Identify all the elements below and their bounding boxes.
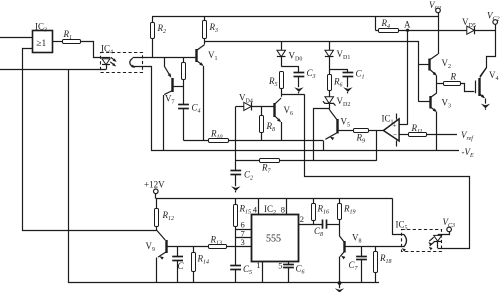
wire 555 pin ladder [236, 220, 252, 266]
resistor R16 [312, 199, 330, 225]
wire IC1 plus input [399, 124, 408, 126]
svg-text:+12V: +12V [144, 180, 165, 190]
IGBT V4 [476, 68, 499, 104]
phototransistor IC4 [130, 58, 135, 68]
transistor V3 [430, 93, 451, 112]
wire R1 to IC4 LED [80, 42, 102, 58]
resistor Rx [182, 58, 186, 105]
transistor V5 [325, 109, 350, 140]
wire IC4 emitter down [133, 67, 152, 152]
label Vref [461, 130, 474, 142]
transistor V9 [146, 230, 167, 260]
wire input 1 to IC3 [0, 37, 32, 39]
transistor V1 [197, 45, 218, 67]
wire IC5 LED cathode [438, 248, 442, 250]
wire R4 to VC2 [399, 30, 495, 32]
svg-text:5: 5 [278, 260, 282, 270]
wire VD4 node down [235, 106, 237, 170]
wire base rail V2 V3 [205, 42, 419, 102]
diode VD0 [277, 42, 302, 67]
capacitor C5 [230, 264, 252, 283]
wire V8 base rail [345, 246, 404, 248]
label -VE [462, 147, 475, 159]
wire V1 emitter down [203, 66, 205, 141]
resistor R4 [375, 18, 398, 33]
optocoupler IC5 box [402, 230, 442, 252]
wire V6 emitter down [281, 122, 283, 141]
node A [404, 20, 411, 32]
ground C1 [343, 87, 352, 93]
zener VD2 [323, 91, 350, 109]
wire +12V rail [156, 198, 393, 200]
capacitor C [172, 246, 184, 282]
terminal +12V [144, 180, 165, 199]
wire IC4 collector out [133, 57, 197, 59]
light arrows IC4 [110, 57, 116, 66]
diode VD4 [236, 93, 274, 111]
resistor R15 [234, 199, 252, 227]
wire R7 rail [236, 160, 376, 162]
svg-text:≥1: ≥1 [36, 39, 46, 49]
resistor R9 [354, 129, 384, 145]
wire input 2 of IC3 feedback [23, 49, 157, 231]
wire node A column [407, 30, 409, 125]
capacitor C6 [278, 260, 304, 282]
resistor R2 [151, 17, 167, 58]
gate IC3 [33, 31, 53, 53]
resistor R1 [63, 29, 81, 44]
capacitor C2 [230, 170, 253, 187]
label IC5 [396, 220, 408, 232]
timer IC2 555 [252, 204, 299, 262]
transistor V7 [164, 58, 183, 106]
capacitor C3 [281, 67, 315, 88]
wire rail to R4 [375, 17, 377, 31]
svg-text:555: 555 [266, 234, 281, 245]
wire V3 base [418, 101, 430, 103]
wire top rail VC1 [152, 16, 438, 18]
resistor R6 [328, 69, 343, 90]
capacitor C4 [178, 103, 200, 141]
wire V2 base [418, 64, 429, 66]
wire IC3 output [53, 41, 62, 43]
diode VD1 [325, 42, 350, 70]
resistor R [437, 72, 475, 92]
resistor R8 [260, 106, 276, 140]
svg-text:4: 4 [253, 205, 258, 215]
resistor R11 [409, 123, 458, 137]
resistor R14 [192, 246, 210, 282]
label IC3 [35, 22, 47, 34]
transistor V2 [429, 54, 451, 76]
wire ground bus left [0, 69, 106, 71]
capacitor C7 [349, 247, 367, 283]
wire 555 pin8 [286, 199, 288, 216]
light arrows IC5 [428, 237, 434, 250]
wire feedback column left [305, 94, 470, 248]
terminal VC2 [480, 11, 500, 77]
svg-text:A: A [404, 20, 411, 30]
wire IC1 minus input [399, 134, 409, 136]
svg-text:2: 2 [300, 214, 304, 224]
ground V4 [481, 104, 490, 110]
LED of IC4 [102, 58, 110, 70]
LED of IC5 [434, 235, 442, 248]
wire VD2 node left [314, 109, 330, 161]
wire 555 pin4 [258, 199, 260, 216]
terminal VC1 [429, 0, 442, 54]
wire V5 emitter down [323, 141, 325, 152]
resistor R13 [209, 235, 227, 249]
resistor R3 [203, 17, 219, 45]
wire 555 pin2 [299, 214, 323, 225]
svg-text:3: 3 [241, 237, 245, 247]
resistor R5 [268, 72, 284, 97]
phototransistor IC5 [402, 234, 407, 252]
resistor R18 [374, 247, 392, 283]
wire V9 emitter down [156, 258, 158, 283]
wire V2 emitter to V3 collector [436, 76, 438, 93]
ground C3 [294, 87, 303, 93]
optocoupler IC4 box [101, 53, 143, 73]
ground V8 [335, 281, 344, 292]
resistor R10 [209, 129, 229, 143]
svg-text:1: 1 [256, 260, 260, 270]
resistor R7 [260, 159, 280, 175]
wire R10 rail [184, 140, 324, 142]
svg-text:8: 8 [281, 205, 285, 215]
wire V8 emitter down [339, 257, 341, 283]
capacitor C1 [329, 69, 364, 88]
svg-text:−: − [393, 130, 397, 139]
wire rail to IC5 collector [393, 199, 404, 235]
wire V7 collector down [163, 95, 165, 151]
svg-text:C: C [178, 261, 185, 271]
wire -VE rail [151, 150, 459, 152]
resistor R12 [155, 199, 175, 231]
terminal VC3 [438, 217, 455, 234]
wire left ground drop [69, 70, 380, 283]
wire V9 base rail [166, 246, 251, 248]
wire 555 pin1 [256, 260, 262, 283]
ground C2 [231, 186, 240, 192]
wire V5 base [338, 130, 353, 132]
op-amp IC1 [382, 114, 400, 147]
label IC4 [101, 44, 113, 56]
svg-text:R: R [450, 72, 457, 82]
diode VD5 [462, 17, 476, 34]
transistor V8 [339, 224, 361, 259]
wire R5 node right [281, 94, 304, 96]
wire IC1 output column [376, 130, 378, 161]
wire V3 emitter down [436, 112, 438, 151]
transistor V6 [274, 98, 293, 122]
capacitor C8 [314, 220, 339, 239]
resistor R19 [338, 199, 356, 225]
